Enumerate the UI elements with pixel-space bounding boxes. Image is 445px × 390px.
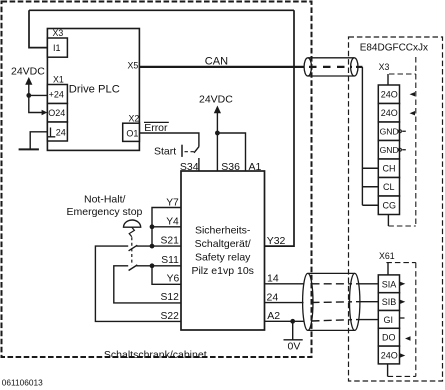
switch S34 start button — [182, 145, 199, 171]
svg-text:Y4: Y4 — [166, 217, 179, 228]
svg-text:CG: CG — [383, 201, 397, 211]
svg-text:S21: S21 — [160, 236, 179, 247]
svg-text:S11: S11 — [161, 255, 179, 266]
pin I1 — [47, 38, 67, 57]
wire CAN from X5 — [139, 66, 304, 68]
wire Error from O1 — [139, 133, 199, 147]
wire top bus from I1 to Y32 riser — [29, 9, 294, 11]
arrow out SIA — [400, 282, 406, 286]
svg-text:Schaltschrank/cabinet: Schaltschrank/cabinet — [104, 349, 207, 361]
svg-text:Y7: Y7 — [166, 197, 179, 208]
pin GI — [378, 311, 399, 329]
cable shield bottom — [303, 273, 360, 330]
svg-text:X2: X2 — [129, 113, 140, 123]
wire Y6 jumper — [152, 266, 181, 285]
wire CAN bus down to CH CL CG — [361, 67, 363, 205]
svg-text:X3: X3 — [53, 28, 64, 38]
wire CAN to bus — [356, 66, 362, 68]
pin DO — [378, 328, 399, 346]
pin GND b — [378, 141, 399, 160]
switch contact pole 2 blade — [129, 265, 138, 271]
wire stub CL — [362, 186, 378, 188]
wire 24VDC rail left — [29, 84, 43, 113]
svg-text:24VDC: 24VDC — [199, 94, 233, 106]
arrow out 24O low — [400, 353, 406, 357]
wire X61 top tail — [387, 263, 389, 275]
svg-text:Drive PLC: Drive PLC — [69, 84, 120, 96]
wire CAN inside cable (dashed) — [309, 66, 352, 68]
svg-text:Emergency stop: Emergency stop — [67, 206, 143, 218]
wire X3 bottom tail — [387, 215, 389, 227]
svg-text:14: 14 — [267, 273, 279, 285]
wire X61 bottom tail — [387, 364, 389, 377]
wire stub CG — [362, 204, 378, 206]
svg-text:SIB: SIB — [382, 297, 397, 307]
pin +24 — [47, 85, 67, 104]
wire X3 top tail — [387, 74, 389, 85]
svg-text:Y32: Y32 — [267, 235, 286, 247]
svg-text:CL: CL — [383, 182, 395, 192]
pin GND a — [378, 122, 399, 141]
ground bar left — [19, 148, 39, 150]
wire 14 to SIA — [265, 283, 304, 285]
svg-text:O1: O1 — [126, 129, 138, 139]
svg-text:DO: DO — [382, 333, 396, 343]
wire Y4 — [152, 226, 181, 228]
wire 24VDC rail to S36 — [216, 113, 218, 172]
pin O1 — [123, 123, 140, 141]
pin SIA — [378, 275, 399, 293]
stub GND b — [398, 148, 401, 151]
svg-text:24O: 24O — [381, 351, 398, 361]
svg-text:GI: GI — [384, 315, 394, 325]
svg-text:061106013: 061106013 — [2, 377, 43, 387]
svg-text:Not-Halt/: Not-Halt/ — [84, 194, 126, 206]
ground 0V — [284, 321, 303, 340]
svg-text:X5: X5 — [128, 61, 139, 71]
svg-text:A2: A2 — [267, 310, 280, 322]
svg-text:24O: 24O — [381, 90, 398, 100]
stub GI — [400, 317, 405, 319]
pin 24O b — [378, 104, 399, 123]
svg-text:24VDC: 24VDC — [11, 66, 45, 78]
svg-text:Safety relay: Safety relay — [195, 252, 251, 264]
node junction 0V — [290, 319, 295, 324]
switch S1 emergency stop mushroom head — [124, 220, 141, 227]
wire S12 left loop — [114, 266, 181, 303]
node junction S11 — [150, 263, 155, 268]
module E84DGFCCxJx dashed enclosure — [349, 37, 443, 381]
svg-text:S22: S22 — [160, 311, 179, 322]
cabinet dashed enclosure Schaltschrank — [2, 2, 312, 358]
svg-text:24: 24 — [267, 291, 279, 303]
svg-text:SIA: SIA — [382, 279, 397, 289]
pin CH — [378, 159, 399, 178]
svg-text:Sicherheits-: Sicherheits- — [195, 225, 251, 237]
arrow into O24 — [42, 110, 48, 115]
pin CL — [378, 178, 399, 197]
arrow into DO — [405, 336, 411, 340]
svg-text:GND: GND — [380, 145, 399, 155]
svg-text:S12: S12 — [160, 292, 179, 303]
svg-text:Schaltgerät/: Schaltgerät/ — [195, 238, 251, 250]
wire Y7 jumper bus — [152, 208, 181, 247]
wire A2 to GI — [265, 320, 304, 322]
safety relay K1 box — [181, 171, 265, 330]
arrow 24VDC up mid — [214, 106, 221, 114]
svg-text:CAN: CAN — [205, 56, 228, 68]
svg-text:Error: Error — [144, 122, 168, 134]
Drive PLC U1 box — [47, 29, 139, 151]
pin O24 — [47, 104, 67, 123]
arrow into 24O b — [410, 111, 416, 115]
connector X61 dashed frame — [386, 263, 415, 377]
wire 24 to SIB — [265, 302, 304, 304]
actuator link dashed — [129, 227, 134, 237]
svg-text:Pilz e1vp 10s: Pilz e1vp 10s — [191, 265, 253, 277]
wire S21 right — [136, 245, 181, 247]
wire S22 left loop — [95, 246, 181, 321]
node junction A1 branch — [215, 131, 220, 136]
svg-text:Y6: Y6 — [167, 273, 180, 284]
connector X3 dashed frame — [388, 57, 415, 226]
switch contact pole 1 blade — [129, 245, 138, 251]
svg-text:X61: X61 — [379, 251, 395, 261]
svg-text:24: 24 — [56, 128, 66, 138]
svg-text:Start: Start — [154, 146, 176, 158]
wire branch to A1 — [217, 133, 245, 171]
arrow into 24O a — [410, 92, 416, 96]
svg-text:O24: O24 — [48, 108, 65, 118]
wire stub CH — [362, 167, 378, 169]
pin 24O a — [378, 85, 399, 104]
svg-text:I1: I1 — [53, 43, 61, 53]
node junction S21 — [150, 244, 155, 249]
svg-text:CH: CH — [383, 164, 396, 174]
svg-text:X3: X3 — [379, 62, 390, 72]
wire Y32 riser — [265, 10, 295, 246]
svg-text:+24: +24 — [49, 90, 64, 100]
stub GND a — [398, 130, 401, 133]
svg-text:GND: GND — [380, 127, 399, 137]
wire GND24 to earth — [30, 132, 47, 150]
pin SIB — [378, 293, 399, 311]
svg-text:24O: 24O — [381, 108, 398, 118]
pin 24O low — [378, 346, 399, 364]
svg-text:0V: 0V — [288, 341, 301, 353]
svg-text:X1: X1 — [53, 75, 64, 85]
wire S11 right — [136, 265, 181, 267]
pin CG — [378, 196, 399, 215]
pin GND24 — [47, 122, 67, 141]
node junction Y4 — [150, 224, 155, 229]
wire to +24 — [29, 94, 48, 96]
node junction +24 — [26, 93, 31, 98]
svg-text:E84DGFCCxJx: E84DGFCCxJx — [360, 43, 428, 54]
arrow 24VDC up left — [25, 77, 32, 85]
wire I1 riser and stub — [29, 10, 47, 47]
arrow out SIB — [400, 300, 406, 304]
cable shield top — [304, 58, 358, 76]
